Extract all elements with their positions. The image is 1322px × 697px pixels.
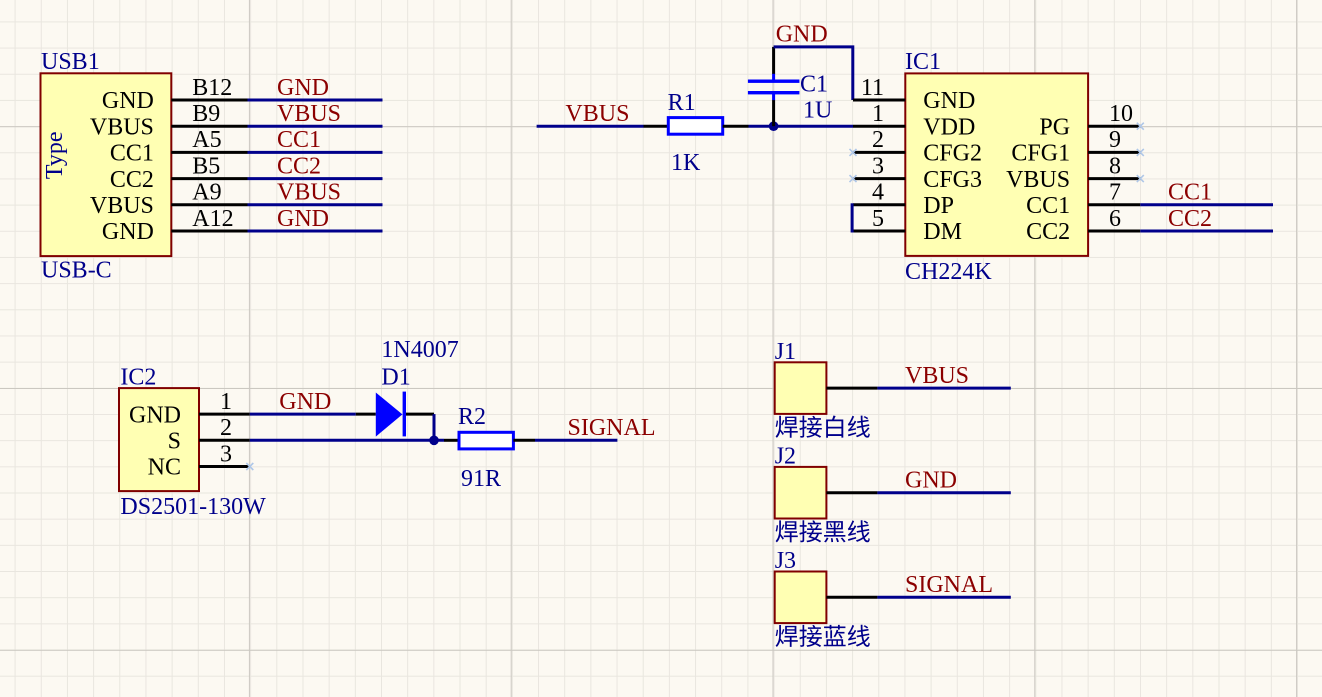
svg-text:GND: GND	[102, 88, 154, 114]
svg-text:R1: R1	[668, 90, 696, 116]
svg-text:6: 6	[1109, 206, 1121, 232]
svg-text:3: 3	[220, 441, 232, 467]
wire net GND from C1 to IC1.GND	[774, 47, 853, 100]
svg-text:DM: DM	[923, 219, 962, 245]
svg-text:CH224K: CH224K	[905, 259, 992, 285]
pin 3 (NC) of IC2	[199, 465, 250, 468]
capacitor C1	[772, 100, 775, 126]
wire net CC2 from USB1.B5	[248, 177, 383, 180]
svg-text:DP: DP	[923, 193, 954, 219]
wire net GND from USB1.A12	[248, 230, 383, 233]
svg-text:S: S	[168, 429, 181, 455]
svg-text:B9: B9	[192, 101, 220, 127]
svg-text:1: 1	[872, 101, 884, 127]
pin 1 (VDD) of IC1	[853, 125, 905, 128]
wire net CC1 from USB1.A5	[248, 151, 383, 154]
svg-text:VBUS: VBUS	[277, 180, 341, 206]
wire net SIGNAL	[535, 439, 617, 442]
wire net GND from J2	[877, 491, 1010, 494]
svg-text:VBUS: VBUS	[90, 114, 154, 140]
pin A12 (GND) of USB1	[171, 230, 247, 233]
comment 焊接白线	[776, 416, 870, 438]
wire net from IC2.2 (S)	[250, 439, 444, 442]
svg-text:3: 3	[872, 153, 884, 179]
svg-text:GND: GND	[776, 22, 828, 48]
svg-text:SIGNAL: SIGNAL	[905, 572, 993, 598]
wire net VBUS from USB1.A9	[248, 203, 383, 206]
svg-text:CC2: CC2	[1026, 219, 1070, 245]
svg-text:2: 2	[220, 415, 232, 441]
pin 2 (CFG2) of IC1	[853, 151, 905, 154]
svg-text:GND: GND	[277, 75, 329, 101]
svg-text:IC2: IC2	[120, 365, 156, 391]
junction at D1/R2 node	[429, 436, 439, 446]
svg-text:GND: GND	[279, 389, 331, 415]
svg-text:J2: J2	[775, 444, 796, 470]
pin 10 (PG) of IC1	[1088, 125, 1140, 128]
svg-text:GND: GND	[102, 219, 154, 245]
wire net CC1	[1140, 203, 1273, 206]
pin 4 (DP) of IC1	[853, 203, 905, 206]
pin 1 of J1	[826, 387, 877, 390]
svg-text:VDD: VDD	[923, 114, 975, 140]
svg-text:4: 4	[872, 180, 884, 206]
pin B9 (VBUS) of USB1	[171, 125, 247, 128]
wire net SIGNAL from J3	[877, 596, 1010, 599]
resistor R2	[444, 439, 459, 442]
svg-text:B5: B5	[192, 153, 220, 179]
svg-text:5: 5	[872, 206, 884, 232]
svg-text:Type: Type	[42, 131, 68, 179]
svg-text:R2: R2	[458, 404, 486, 430]
pin 7 (CC1) of IC1	[1088, 203, 1140, 206]
wire D1 cathode down to SIGNAL node	[433, 414, 436, 440]
svg-text:CFG1: CFG1	[1011, 141, 1070, 167]
wire VBUS to IC1.VDD	[749, 125, 854, 128]
connector J3 body	[775, 572, 827, 624]
svg-text:1N4007: 1N4007	[381, 337, 458, 363]
svg-text:CC2: CC2	[277, 153, 321, 179]
svg-text:VBUS: VBUS	[277, 101, 341, 127]
svg-text:CC2: CC2	[110, 167, 154, 193]
pin 9 (CFG1) of IC1	[1088, 151, 1140, 154]
connector USB1 body	[41, 73, 172, 256]
svg-text:VBUS: VBUS	[565, 101, 629, 127]
svg-text:GND: GND	[905, 467, 957, 493]
pin 2 (S) of IC2	[199, 439, 250, 442]
svg-text:1U: 1U	[803, 97, 832, 123]
junction at R1/C1/VDD node	[769, 121, 779, 131]
svg-text:B12: B12	[192, 75, 232, 101]
svg-text:IC1: IC1	[905, 49, 941, 75]
svg-text:2: 2	[872, 127, 884, 153]
IC IC2 body DS2501-130W	[119, 388, 199, 491]
svg-text:A5: A5	[192, 127, 221, 153]
IC U1 body CH224K	[905, 73, 1088, 256]
svg-text:CC1: CC1	[1168, 180, 1212, 206]
svg-text:GND: GND	[277, 206, 329, 232]
wire net VBUS from J1	[877, 387, 1010, 390]
svg-text:DS2501-130W: DS2501-130W	[120, 494, 266, 520]
svg-text:1K: 1K	[671, 150, 701, 176]
wire DP to DM	[851, 203, 854, 232]
diode D1	[356, 413, 376, 416]
svg-text:7: 7	[1109, 180, 1121, 206]
svg-text:VBUS: VBUS	[905, 363, 969, 389]
svg-text:11: 11	[861, 75, 884, 101]
wire net VBUS	[537, 125, 644, 128]
pin 1 of J3	[826, 596, 877, 599]
svg-text:D1: D1	[381, 365, 410, 391]
pin B12 (GND) of USB1	[171, 99, 247, 102]
svg-text:NC: NC	[148, 455, 181, 481]
wire net GND from IC2.1	[250, 413, 356, 416]
svg-text:GND: GND	[923, 88, 975, 114]
connector J1 body	[775, 362, 827, 414]
svg-text:USB1: USB1	[41, 49, 100, 75]
svg-text:SIGNAL: SIGNAL	[568, 415, 656, 441]
svg-text:VBUS: VBUS	[1006, 167, 1070, 193]
svg-text:A12: A12	[192, 206, 233, 232]
svg-text:CFG2: CFG2	[923, 141, 982, 167]
svg-text:CC1: CC1	[110, 141, 154, 167]
comment 焊接黑线	[776, 520, 870, 542]
pin 6 (CC2) of IC1	[1088, 230, 1140, 233]
svg-text:J3: J3	[775, 548, 796, 574]
svg-text:8: 8	[1109, 153, 1121, 179]
svg-text:J1: J1	[775, 339, 796, 365]
no-connect marks at open pin ends	[850, 149, 857, 156]
pin 11 (GND) of IC1	[853, 99, 905, 102]
svg-text:CC1: CC1	[1026, 193, 1070, 219]
svg-text:A9: A9	[192, 180, 221, 206]
svg-text:91R: 91R	[461, 466, 501, 492]
connector J2 body	[775, 467, 827, 519]
pin 8 (VBUS) of IC1	[1088, 177, 1140, 180]
wire net CC2	[1140, 230, 1273, 233]
comment 焊接蓝线	[776, 625, 870, 647]
wire net GND from USB1.B12	[248, 99, 383, 102]
svg-text:PG: PG	[1039, 114, 1070, 140]
svg-text:CFG3: CFG3	[923, 167, 982, 193]
svg-text:C1: C1	[800, 72, 828, 98]
svg-text:VBUS: VBUS	[90, 193, 154, 219]
svg-text:1: 1	[220, 389, 232, 415]
pin 5 (DM) of IC1	[853, 230, 905, 233]
pin 1 (GND) of IC2	[199, 413, 250, 416]
svg-text:USB-C: USB-C	[41, 258, 112, 284]
svg-text:9: 9	[1109, 127, 1121, 153]
wire net VBUS from USB1.B9	[248, 125, 383, 128]
pin 1 of J2	[826, 491, 877, 494]
pin B5 (CC2) of USB1	[171, 177, 247, 180]
resistor R1	[644, 125, 669, 128]
pin 3 (CFG3) of IC1	[853, 177, 905, 180]
svg-text:CC2: CC2	[1168, 206, 1212, 232]
svg-text:GND: GND	[129, 402, 181, 428]
svg-text:10: 10	[1109, 101, 1133, 127]
pin A9 (VBUS) of USB1	[171, 203, 247, 206]
svg-text:CC1: CC1	[277, 127, 321, 153]
pin A5 (CC1) of USB1	[171, 151, 247, 154]
